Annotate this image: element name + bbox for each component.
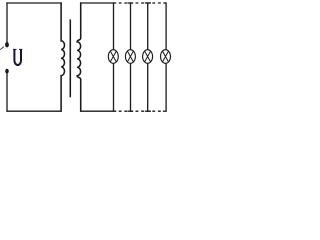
- node: source terminal dot (top): [5, 42, 9, 47]
- label U (source voltage): [13, 49, 22, 65]
- wire: branch 2 vertical: [130, 3, 132, 111]
- wire: secondary top rail solid part: [80, 2, 116, 4]
- wire: left loop top rail: [6, 2, 61, 4]
- node: source terminal dot (bottom): [5, 69, 9, 74]
- wire: branch 3 vertical: [147, 3, 149, 111]
- wire: bottom-right corner stub: [163, 110, 167, 112]
- transformer secondary winding L2 (wire + 4 bumps): [77, 2, 81, 111]
- lamp EL1: [108, 50, 118, 64]
- wire: secondary top rail dashed part: [116, 2, 161, 4]
- wire: branch 1 vertical: [113, 2, 115, 111]
- wire: top cap at branch 2: [128, 2, 134, 4]
- lamp EL2: [125, 50, 135, 64]
- wire: branch 4 vertical (right edge): [165, 2, 167, 111]
- transformer primary winding L1 (wire + 4 bumps): [61, 2, 64, 111]
- wire: top-right corner stub: [163, 2, 166, 4]
- wire: bottom cap at branch 2: [128, 110, 134, 112]
- wire: secondary bottom rail dashed part: [116, 110, 161, 112]
- wire: left loop bottom rail: [6, 110, 61, 112]
- AC tick mark beside top terminal: [0, 47, 4, 50]
- wire: bottom cap at branch 3: [145, 110, 151, 112]
- transformer core: [69, 19, 71, 97]
- wire: secondary bottom rail solid part: [80, 110, 116, 112]
- wire: left loop left side lower segment: [6, 73, 8, 112]
- lamp EL4: [161, 50, 171, 64]
- wire: top cap at branch 3: [145, 2, 151, 4]
- wire: left loop left side upper segment: [6, 2, 8, 43]
- lamp EL3: [143, 50, 153, 64]
